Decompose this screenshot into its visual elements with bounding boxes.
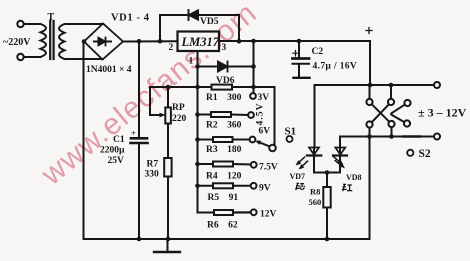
resistor R8: [323, 187, 330, 208]
wire AC bottom to transformer primary: [24, 56, 41, 58]
node ladder bus R3 junction: [195, 137, 200, 142]
svg-text:2: 2: [169, 43, 174, 53]
resistor R7: [164, 158, 171, 177]
switch S2 contact c2: [388, 99, 394, 105]
node ladder bus R2 junction: [195, 112, 200, 117]
wire VD8 riser: [339, 137, 341, 148]
switch S1 wiper: [269, 145, 276, 152]
svg-text:VD5: VD5: [200, 17, 219, 27]
label red char: [342, 184, 352, 191]
diode VD5: [188, 10, 190, 20]
terminal circle output plus: [434, 82, 440, 88]
node switch top middle junction: [389, 83, 394, 88]
svg-text:4.5V: 4.5V: [255, 102, 265, 125]
svg-text:9V: 9V: [259, 184, 271, 194]
LED VD8: [335, 148, 345, 155]
LED VD8 emission arrows: [334, 157, 346, 169]
resistor R1: [212, 85, 233, 90]
resistor R5: [198, 185, 214, 187]
svg-text:VD8: VD8: [346, 173, 362, 182]
wire negative riser to ground rail: [369, 137, 371, 240]
wire secondary top to bridge top vertex: [65, 23, 104, 25]
svg-text:R2 360: R2 360: [206, 121, 242, 131]
wire LED common bar: [314, 172, 340, 174]
terminal circle AC top: [17, 21, 23, 27]
potentiometer RP wiper arm: [150, 87, 163, 115]
wire R7 to ground rail: [167, 177, 169, 240]
node riser junction y85: [368, 83, 373, 88]
svg-text:R1 300: R1 300: [206, 93, 242, 103]
node VD5 right junction: [237, 39, 242, 44]
svg-text:3: 3: [222, 43, 227, 53]
node contact 7.5V: [251, 162, 257, 168]
node ladder bus R4 junction: [195, 162, 200, 167]
svg-text:VD7: VD7: [290, 172, 306, 181]
switch S2 pole arm c6: [391, 115, 404, 122]
svg-text:12V: 12V: [260, 210, 277, 220]
wire AC top to transformer primary: [24, 23, 41, 25]
svg-text:RP: RP: [172, 103, 185, 113]
switch S2 contact c4: [366, 121, 372, 127]
output plus mark: [366, 28, 372, 34]
node ladder riser junction on output rail: [251, 39, 256, 44]
switch S2 contact c5: [388, 121, 394, 127]
switch S2 pole c3: [404, 100, 410, 106]
svg-text:330: 330: [145, 170, 160, 180]
node ladder bus R5 junction: [195, 184, 200, 189]
svg-text:T: T: [48, 12, 55, 23]
terminal circle S2: [407, 150, 413, 156]
node contact 9V: [251, 183, 257, 189]
node negative rail riser junction: [367, 134, 372, 139]
node C1 top junction: [137, 39, 142, 44]
node VD5 left junction: [158, 39, 163, 44]
wire VD5 top: [160, 14, 239, 16]
svg-text:25V: 25V: [108, 156, 125, 166]
wire RP to R7: [167, 124, 169, 159]
op-amp regulator U1 LM317 box: [178, 32, 220, 52]
svg-text:R3 180: R3 180: [206, 145, 242, 155]
node R8 ground junction: [325, 237, 330, 242]
wire ground rail: [84, 238, 370, 240]
wire ladder riser (pin3 to ADJ row): [253, 41, 255, 87]
wire VD6 row: [198, 66, 254, 68]
node negative rail middle junction: [389, 134, 394, 139]
resistor R2: [198, 114, 212, 116]
wire C1 branch top: [138, 41, 140, 137]
svg-text:R5 91: R5 91: [208, 193, 239, 203]
svg-text:R6 62: R6 62: [207, 221, 238, 231]
LED VD7 emission arrows: [296, 157, 308, 169]
svg-text:4.7µ / 16V: 4.7µ / 16V: [313, 62, 358, 72]
node R1 right junction: [251, 85, 256, 90]
node C2 junction on output rail: [297, 39, 302, 44]
svg-text:C2: C2: [312, 47, 324, 57]
svg-text:220: 220: [172, 114, 187, 124]
svg-text:6V: 6V: [259, 127, 271, 137]
LED VD7: [309, 148, 319, 155]
svg-text:+: +: [131, 128, 136, 138]
node VD6 left junction: [195, 64, 200, 69]
svg-text:560: 560: [309, 197, 322, 207]
wire wiper feed (row to wiper): [254, 87, 275, 145]
wire LM317 pin3 output rail: [219, 40, 370, 42]
svg-text:2200µ: 2200µ: [100, 146, 125, 156]
node C1 bottom junction: [137, 237, 142, 242]
capacitor C1: [131, 137, 147, 140]
wire bridge minus down to ground rail: [83, 42, 85, 240]
wire LM317 pin1 down: [197, 51, 199, 67]
diode VD6: [218, 62, 227, 72]
switch S2 pole c6: [404, 120, 410, 126]
svg-text:VD1 - 4: VD1 - 4: [111, 13, 150, 24]
svg-text:~220V: ~220V: [3, 37, 31, 48]
switch S2 contact stubs top: [369, 85, 371, 99]
node R7 ground junction: [166, 237, 171, 242]
svg-text:± 3 – 12V: ± 3 – 12V: [418, 106, 467, 120]
svg-text:R4 120: R4 120: [206, 172, 242, 182]
corner output rail down: [369, 41, 371, 85]
wire secondary bottom to bridge bottom vertex: [65, 58, 103, 60]
transformer T primary winding: [41, 24, 47, 57]
node contact 3V: [250, 93, 256, 99]
C2 plus sign: [293, 51, 298, 57]
resistor R3: [198, 139, 214, 141]
switch S2 contact c1: [366, 99, 372, 105]
switch S2 pole arm c3: [391, 105, 404, 114]
node ladder bus R1 junction: [195, 85, 200, 90]
node VD6 right junction: [251, 64, 256, 69]
svg-text:LM317: LM317: [181, 35, 220, 49]
wire positive rail y85: [315, 84, 435, 86]
potentiometer RP body: [167, 87, 169, 108]
wire VD7 riser: [314, 85, 316, 148]
bridge rectifier VD1-4 diamond: [84, 24, 123, 60]
resistor R6: [198, 212, 215, 214]
wire bridge plus to LM317 pin2: [123, 40, 178, 42]
svg-text:1N4001 × 4: 1N4001 × 4: [86, 65, 132, 75]
svg-text:R8: R8: [310, 187, 320, 197]
label green char: [295, 183, 304, 190]
svg-text:S2: S2: [419, 148, 431, 160]
resistor R4: [198, 163, 214, 165]
svg-text:C1: C1: [113, 135, 125, 145]
transformer T core: [49, 21, 51, 59]
node bridge DC minus (left vertex): [82, 39, 87, 44]
terminal circle output minus: [434, 134, 440, 140]
terminal circle AC bottom: [17, 54, 23, 60]
switch S2 cross wire c1-c5: [372, 104, 389, 121]
switch S2 contact stubs bottom: [369, 128, 371, 137]
bridge inner diode symbol: [94, 41, 111, 43]
wire VD5 left riser: [159, 15, 161, 41]
switch S2 cross wire c4-c2: [372, 104, 389, 122]
node RP junction: [166, 85, 171, 90]
svg-text:VD6: VD6: [216, 76, 235, 86]
transformer T secondary winding: [59, 24, 65, 59]
wire ADJ bus (pin1 down ladder): [197, 67, 199, 213]
node contact 4.5V: [248, 112, 254, 118]
wire ADJ row y87: [150, 86, 254, 88]
capacitor C2: [298, 41, 300, 57]
wire VD5 right riser: [238, 15, 240, 41]
ground symbol: [167, 239, 169, 252]
node contact 12V: [251, 209, 257, 215]
svg-text:3V: 3V: [258, 93, 270, 103]
svg-text:7.5V: 7.5V: [259, 163, 278, 173]
svg-text:1: 1: [189, 57, 194, 67]
watermark www.elecfans.com: [35, 0, 264, 192]
wire negative rail y136.5: [340, 136, 434, 138]
wire R8 to ground rail: [326, 208, 328, 240]
node R8 top junction: [325, 170, 330, 175]
wire R8 riser: [326, 173, 328, 188]
terminal circle S1: [287, 136, 293, 142]
wire 3V contact stub: [253, 87, 255, 93]
svg-text:R7: R7: [147, 160, 159, 170]
wire C1 branch bottom: [138, 144, 140, 239]
node contact 6V: [250, 137, 256, 143]
